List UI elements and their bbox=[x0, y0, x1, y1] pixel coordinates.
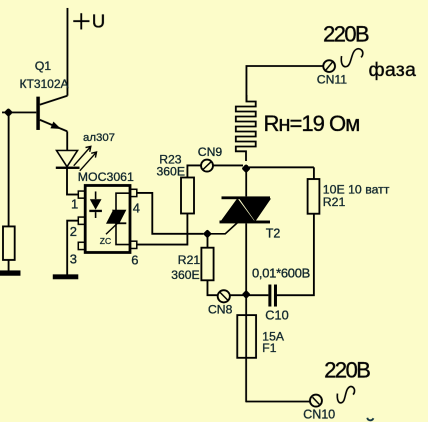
wire CN11 to load bbox=[246, 66, 323, 102]
wire pin4 route bbox=[137, 193, 204, 234]
optocoupler U? MOC3061 box bbox=[85, 185, 130, 252]
AC sine symbol top bbox=[341, 49, 363, 67]
label ZC bbox=[100, 236, 111, 246]
pin 2 number bbox=[70, 224, 77, 239]
label KT3102A bbox=[20, 77, 69, 91]
stray mark bottom right bbox=[367, 418, 373, 421]
pin 3 bbox=[78, 242, 85, 249]
label 0,01*600V bbox=[252, 266, 310, 281]
label 360E gate bbox=[171, 268, 199, 282]
label R23 bbox=[159, 153, 182, 167]
svg-text:3: 3 bbox=[70, 251, 77, 266]
svg-text:Rн=19 Ом: Rн=19 Ом bbox=[264, 111, 360, 136]
node CN11 bbox=[323, 60, 335, 72]
pin 2 bbox=[78, 217, 85, 224]
svg-text:C10: C10 bbox=[265, 308, 288, 323]
pin 6 bbox=[130, 241, 137, 248]
wire fuse to CN10 bbox=[246, 401, 310, 403]
capacitor C10 bbox=[268, 285, 277, 307]
node CN8 bbox=[218, 290, 230, 302]
fuse F1 bbox=[237, 315, 256, 358]
wire +U to collector bbox=[66, 8, 68, 96]
wire triac gate bbox=[210, 222, 238, 233]
resistor R21 snubber 10E bbox=[308, 179, 320, 214]
svg-text:T2: T2 bbox=[266, 227, 281, 241]
wire resistor to ground bbox=[8, 260, 10, 271]
label CN11 bbox=[317, 73, 347, 87]
ground (optocoupler) bbox=[53, 274, 79, 279]
svg-text:R21: R21 bbox=[178, 253, 201, 267]
svg-text:MOC3061: MOC3061 bbox=[78, 170, 134, 184]
svg-text:CN11: CN11 bbox=[317, 73, 347, 87]
svg-text:F1: F1 bbox=[262, 341, 276, 355]
svg-text:1: 1 bbox=[71, 196, 78, 211]
pin 3 number bbox=[70, 251, 77, 266]
svg-text:CN8: CN8 bbox=[208, 302, 233, 316]
node junction gate bbox=[203, 229, 212, 238]
svg-text:CN10: CN10 bbox=[303, 408, 335, 422]
label MOC3061 bbox=[78, 170, 134, 184]
label C10 bbox=[265, 308, 288, 323]
resistor left (base bias) bbox=[3, 226, 15, 260]
wire junction to R21 bbox=[206, 236, 208, 248]
label 10E 10 ватт bbox=[323, 183, 390, 197]
wire triac bottom to fuse bbox=[245, 223, 247, 402]
label R21 snubber bbox=[323, 195, 346, 209]
label 220V top bbox=[323, 22, 369, 47]
svg-text:220В: 220В bbox=[324, 357, 370, 382]
svg-text:R21: R21 bbox=[323, 195, 346, 209]
wire R23 top to CN9 bbox=[187, 165, 201, 177]
svg-text:U: U bbox=[92, 10, 105, 31]
load heater Rн meander bbox=[236, 95, 256, 161]
transistor Q1 bbox=[36, 96, 67, 132]
node CN9 bbox=[201, 160, 213, 172]
wire capacitor to snubber resistor bbox=[277, 214, 314, 296]
svg-text:360E: 360E bbox=[171, 268, 199, 282]
wire R21 to CN8 bbox=[207, 280, 217, 295]
wire pin6 to R23 bottom bbox=[137, 213, 188, 244]
svg-text:Q1: Q1 bbox=[35, 59, 52, 73]
label CN9 bbox=[198, 145, 223, 159]
wire LED to pin1 bbox=[67, 168, 78, 195]
svg-text:КТ3102А: КТ3102А bbox=[20, 77, 69, 91]
ground (left) bbox=[0, 270, 20, 275]
pin 1 number bbox=[71, 196, 78, 211]
AC sine symbol bottom bbox=[337, 386, 354, 402]
wire emitter to LED bbox=[66, 131, 68, 150]
svg-text:4: 4 bbox=[133, 201, 140, 216]
svg-text:360E: 360E bbox=[157, 164, 185, 178]
pin 4 number bbox=[133, 201, 140, 216]
label фаза bbox=[369, 59, 417, 81]
LED ал307 bbox=[56, 150, 80, 167]
label 360E bbox=[157, 164, 185, 178]
svg-text:фаза: фаза bbox=[369, 59, 417, 81]
label T2 bbox=[266, 227, 281, 241]
wire junction to triac top bbox=[245, 167, 247, 196]
resistor R21 gate bbox=[201, 248, 213, 281]
triac T2 bbox=[219, 196, 270, 223]
label Q1 bbox=[35, 59, 52, 73]
label 220V bottom bbox=[324, 357, 370, 382]
label 15A bbox=[262, 329, 285, 343]
label +U text bbox=[92, 10, 105, 31]
svg-text:0,01*600В: 0,01*600В bbox=[252, 266, 310, 281]
label R21 bbox=[178, 253, 201, 267]
node junction base bbox=[4, 108, 13, 117]
label F1 bbox=[262, 341, 276, 355]
resistor R23 bbox=[181, 177, 194, 213]
wire CN9 to junction bbox=[213, 164, 243, 166]
node junction cathode bbox=[242, 290, 251, 299]
label CN8 bbox=[208, 302, 233, 316]
svg-text:ZC: ZC bbox=[100, 236, 111, 246]
node junction load-triac bbox=[242, 164, 251, 173]
node CN10 bbox=[310, 395, 322, 407]
pin 6 number bbox=[131, 252, 138, 267]
svg-text:6: 6 bbox=[131, 252, 138, 267]
svg-text:ал307: ал307 bbox=[83, 132, 115, 144]
wire junction to snubber resistor bbox=[249, 166, 314, 168]
wire pin2 to ground bbox=[67, 221, 78, 275]
label CN10 bbox=[303, 408, 335, 422]
svg-text:CN9: CN9 bbox=[198, 145, 223, 159]
label Rн=19 Ом bbox=[264, 111, 360, 136]
internal triac of optocoupler bbox=[106, 193, 130, 244]
LED emission arrows bbox=[74, 146, 97, 170]
wire CN8 to junction bbox=[230, 294, 243, 296]
internal LED of optocoupler bbox=[89, 191, 102, 218]
svg-text:2: 2 bbox=[70, 224, 77, 239]
pin 1 bbox=[78, 191, 85, 198]
power +U symbol bbox=[73, 13, 89, 29]
wire base bbox=[2, 111, 36, 113]
node junction anode bbox=[242, 164, 251, 173]
wire junction to capacitor bbox=[249, 294, 268, 296]
wire base to resistor bbox=[8, 112, 10, 226]
wire snubber resistor top bbox=[313, 167, 315, 179]
label ал307 bbox=[83, 132, 115, 144]
pin 4 bbox=[130, 189, 137, 196]
svg-text:220В: 220В bbox=[323, 22, 369, 47]
